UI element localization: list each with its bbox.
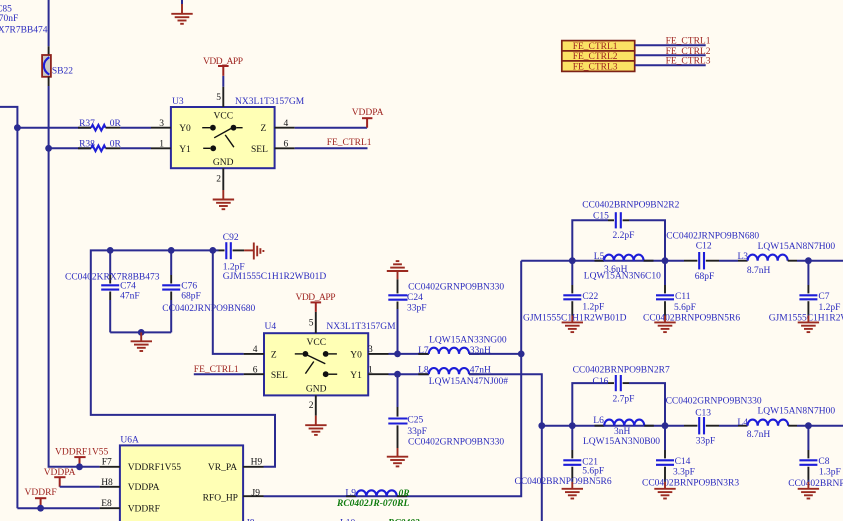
svg-text:LQW15AN47NJ00#: LQW15AN47NJ00#: [429, 377, 508, 387]
capacitor C15: [582, 201, 679, 241]
wire U4 SEL net FE_CTRL1: [194, 373, 244, 375]
svg-text:33pF: 33pF: [407, 427, 427, 437]
svg-text:F7: F7: [102, 457, 112, 467]
wire L8 to LC2 input: [469, 374, 542, 426]
svg-text:VDD_APP: VDD_APP: [296, 293, 336, 303]
ground below C74/C76: [131, 332, 152, 351]
power port VDD_APP (U3): [203, 57, 243, 76]
U4 switch symbol: [295, 351, 337, 377]
svg-text:3: 3: [368, 345, 373, 355]
svg-text:VDDRF: VDDRF: [25, 488, 57, 498]
ground above C24 (inverted): [387, 261, 408, 279]
svg-text:8.7nH: 8.7nH: [747, 266, 771, 276]
junction LC1 node1: [569, 257, 576, 264]
wire L7 to LC1 input: [469, 353, 521, 355]
inductor L8: [418, 365, 508, 387]
wire U4 Y1 to L8: [389, 373, 429, 375]
op... mux U3 body: [171, 97, 305, 168]
svg-text:5: 5: [216, 93, 221, 103]
svg-text:CC0402BRNPO9BN2R7: CC0402BRNPO9BN2R7: [573, 366, 670, 376]
svg-text:Y0: Y0: [179, 124, 191, 134]
svg-text:LQW15AN8N7H00: LQW15AN8N7H00: [758, 407, 836, 417]
svg-text:FE_CTRL1: FE_CTRL1: [194, 365, 239, 375]
capacitor C11: [643, 261, 740, 324]
junction Y1/C25: [394, 371, 401, 378]
U4 pin 1: [368, 365, 389, 375]
svg-text:C22: C22: [582, 292, 598, 302]
U6A pin J9: [243, 489, 263, 499]
capacitor C85 labels (component off-sheet left): [0, 5, 48, 36]
ground below U3: [213, 190, 234, 209]
svg-text:CC0402BRNPO9BN5R6: CC0402BRNPO9BN5R6: [515, 477, 612, 487]
svg-text:3nH: 3nH: [614, 427, 631, 437]
svg-text:C7: C7: [818, 292, 829, 302]
U6A pin H8: [100, 478, 120, 488]
ground below C7: [798, 316, 819, 333]
svg-text:68pF: 68pF: [695, 272, 715, 282]
svg-text:3: 3: [159, 119, 164, 129]
svg-text:2: 2: [309, 401, 314, 411]
svg-text:C8: C8: [818, 457, 829, 467]
capacitor C25: [388, 374, 504, 448]
ground below C8: [798, 482, 819, 499]
svg-text:2.7pF: 2.7pF: [613, 395, 635, 405]
U3 pin 5: [216, 87, 223, 107]
svg-text:VCC: VCC: [307, 338, 327, 348]
svg-text:SEL: SEL: [271, 371, 288, 381]
capacitor C7: [769, 261, 843, 324]
wire U3 pin5 stub: [222, 76, 224, 87]
svg-text:VDDRF: VDDRF: [128, 505, 160, 515]
svg-text:CC0402BRNPO9BN3R3: CC0402BRNPO9BN3R3: [788, 479, 843, 489]
svg-text:FE_CTRL2: FE_CTRL2: [573, 52, 618, 62]
ground below C22: [562, 316, 583, 333]
svg-text:SEL: SEL: [251, 145, 268, 155]
component U6A body: [120, 435, 243, 521]
wire U3 pin6 net FE_CTRL1: [295, 147, 368, 149]
wire U3 pin4 to VDDPA: [295, 127, 367, 129]
junction LC2 node2: [662, 422, 669, 429]
svg-text:FE_CTRL3: FE_CTRL3: [573, 62, 618, 72]
svg-text:C25: C25: [407, 416, 423, 426]
svg-text:3.3pF: 3.3pF: [673, 468, 695, 478]
svg-text:0R: 0R: [110, 119, 122, 129]
svg-text:L5: L5: [594, 252, 605, 262]
svg-text:2: 2: [216, 174, 221, 184]
svg-text:E8: E8: [101, 499, 112, 509]
capacitor C8: [788, 426, 843, 489]
capacitor C22: [523, 261, 627, 324]
wire R38 to U3 pin1: [120, 147, 151, 149]
capacitor C76: [162, 250, 255, 332]
inductor L7: [418, 335, 507, 356]
svg-text:GJM1555C1H1R2WB01D: GJM1555C1H1R2WB01D: [223, 272, 327, 282]
junction C74 tap: [107, 247, 114, 254]
svg-text:5: 5: [309, 318, 314, 328]
port block FE_CTRL1-3: [562, 41, 635, 73]
ground below C21: [562, 482, 583, 499]
U3 pin 1: [151, 140, 171, 150]
svg-text:4: 4: [284, 119, 289, 129]
svg-text:68pF: 68pF: [181, 292, 201, 302]
svg-text:1.2pF: 1.2pF: [819, 303, 841, 313]
ground chassis right of C92: [244, 243, 263, 260]
power port VDD_APP (U4): [296, 293, 336, 312]
wire LC2 stub down off-sheet: [541, 426, 543, 521]
power port VDDRF: [25, 488, 57, 508]
ground below C14: [654, 482, 675, 499]
wire SB22 down to F7 corner: [49, 86, 100, 467]
wire LC2 main line: [542, 425, 684, 427]
svg-text:RFO_HP: RFO_HP: [203, 494, 238, 504]
wire C74/C76 bottom tie: [110, 331, 171, 333]
inductor L4: [737, 407, 835, 440]
svg-text:NX3L1T3157GM: NX3L1T3157GM: [235, 97, 305, 107]
svg-text:J9: J9: [252, 489, 261, 499]
svg-text:L3: L3: [738, 252, 749, 262]
svg-text:47nF: 47nF: [120, 292, 140, 302]
inductor L5: [584, 252, 661, 281]
svg-text:CC0402KRX7R8BB473: CC0402KRX7R8BB473: [65, 273, 160, 283]
svg-text:L9: L9: [345, 488, 356, 498]
wire R38 input: [49, 147, 92, 149]
svg-text:5.6pF: 5.6pF: [674, 303, 696, 313]
capacitor C24: [388, 279, 504, 354]
junction C92 rail: [209, 247, 216, 254]
svg-text:CC0402JRNPO9BN680: CC0402JRNPO9BN680: [162, 304, 255, 314]
svg-text:CC0402JRNPO9BN680: CC0402JRNPO9BN680: [666, 232, 759, 242]
svg-text:1: 1: [159, 140, 164, 150]
wire port FE_CTRL3: [635, 64, 706, 66]
svg-text:L8: L8: [418, 365, 429, 375]
power port VDDPA (U6A): [44, 468, 76, 487]
svg-text:33pF: 33pF: [407, 304, 427, 314]
power port VDDRF1V55: [55, 447, 109, 467]
svg-text:C24: C24: [407, 293, 423, 303]
svg-text:L7: L7: [418, 346, 429, 356]
U4 pin 3: [368, 345, 389, 355]
svg-text:U4: U4: [265, 322, 277, 332]
svg-text:Y1: Y1: [350, 371, 362, 381]
capacitor C13 (series): [666, 397, 762, 447]
wire C16 bypass loop: [572, 383, 608, 426]
wire U4 Y0 to L7: [389, 353, 429, 355]
junction LC1 input: [518, 351, 525, 358]
junction R38 tap: [45, 145, 52, 152]
svg-text:CC0402KRX7R7BB474: CC0402KRX7R7BB474: [0, 25, 48, 35]
wire R37 to U3 pin3: [120, 127, 151, 129]
svg-text:Y1: Y1: [179, 145, 191, 155]
U4 pin 5: [309, 312, 316, 333]
capacitor C16: [573, 366, 670, 405]
svg-text:L6: L6: [593, 416, 604, 426]
svg-text:C85: C85: [0, 5, 12, 15]
wire C12 to L3: [719, 260, 738, 262]
svg-text:C92: C92: [223, 233, 239, 243]
inductor L9: [336, 488, 410, 509]
svg-text:U6A: U6A: [120, 435, 139, 445]
wire C15 to node2: [629, 220, 665, 260]
U3 pin 4: [275, 119, 295, 129]
svg-text:VR_PA: VR_PA: [208, 463, 237, 473]
svg-text:CC0402BRNPO9BN2R2: CC0402BRNPO9BN2R2: [582, 201, 679, 211]
junction LC2 node1: [569, 422, 576, 429]
svg-text:FE_CTRL2: FE_CTRL2: [666, 47, 711, 57]
svg-text:1.2pF: 1.2pF: [582, 303, 604, 313]
svg-text:C11: C11: [675, 292, 691, 302]
capacitor C21: [515, 426, 612, 487]
svg-text:C14: C14: [675, 457, 691, 467]
svg-text:H9: H9: [251, 458, 263, 468]
svg-text:2.2pF: 2.2pF: [613, 231, 635, 241]
svg-text:C15: C15: [593, 212, 609, 222]
svg-text:GND: GND: [213, 158, 234, 168]
wire vertical x521 (LC1 feed down to L9): [264, 261, 522, 497]
junction ground tie: [138, 329, 145, 336]
svg-text:CC0402GRNPO9BN330: CC0402GRNPO9BN330: [666, 397, 762, 407]
svg-text:FE_CTRL1: FE_CTRL1: [327, 138, 372, 148]
svg-text:C13: C13: [695, 409, 711, 419]
svg-text:SB22: SB22: [52, 67, 73, 77]
svg-text:VDDRF1V55: VDDRF1V55: [55, 447, 109, 457]
svg-text:CC0402GRNPO9BN330: CC0402GRNPO9BN330: [408, 283, 504, 293]
svg-text:LQW15AN8N7H00: LQW15AN8N7H00: [758, 242, 836, 252]
junction F7 tap: [76, 463, 83, 470]
svg-text:R37: R37: [79, 119, 95, 129]
svg-text:VDDPA: VDDPA: [352, 108, 384, 118]
svg-text:L4: L4: [737, 418, 748, 428]
wire L3 to node3 and right edge: [797, 260, 843, 262]
inductor L3: [738, 242, 836, 276]
wire left-edge feed to node A: [0, 107, 17, 128]
svg-text:CC0402GRNPO9BN330: CC0402GRNPO9BN330: [408, 438, 504, 448]
junction LC2 node3: [805, 422, 812, 429]
U3 pin 3: [151, 119, 171, 129]
U6A pin E8: [100, 499, 120, 509]
U4 pin 6: [244, 365, 264, 375]
svg-text:33pF: 33pF: [696, 436, 716, 446]
svg-text:4: 4: [253, 345, 258, 355]
wire port FE_CTRL1: [635, 44, 706, 46]
svg-text:R38: R38: [79, 140, 95, 150]
svg-text:FE_CTRL1: FE_CTRL1: [666, 37, 711, 47]
wire R37 input: [17, 127, 91, 129]
svg-text:0R: 0R: [110, 140, 122, 150]
node A junction: [14, 124, 21, 131]
wire vertical rail x48 (top edge through SB22 down to F7 row): [48, 0, 50, 46]
wire L4 to node3 and right edge: [797, 425, 843, 427]
solder bridge SB22: [42, 46, 73, 86]
svg-text:VCC: VCC: [214, 112, 234, 122]
ground below C11: [654, 316, 675, 333]
junction LC1 node3: [805, 257, 812, 264]
svg-text:C74: C74: [120, 282, 136, 292]
svg-text:LQW15AN3N6C10: LQW15AN3N6C10: [584, 271, 661, 281]
svg-text:VDDRF1V55: VDDRF1V55: [128, 463, 182, 473]
mux U4 body: [264, 322, 396, 396]
ground below U4: [305, 416, 326, 435]
ground below C25: [387, 448, 408, 466]
svg-text:LQW15AN33NG00: LQW15AN33NG00: [429, 335, 507, 345]
junction VDDRF tap: [37, 505, 44, 512]
wire LC1 main line: [521, 260, 684, 262]
svg-text:0R: 0R: [399, 489, 410, 499]
capacitor C92: [219, 233, 327, 282]
svg-text:470nF: 470nF: [0, 14, 18, 24]
svg-text:NX3L1T3157GM: NX3L1T3157GM: [326, 322, 396, 332]
svg-text:1.3pF: 1.3pF: [819, 468, 841, 478]
svg-text:8.7nH: 8.7nH: [747, 430, 771, 440]
svg-text:VDDPA: VDDPA: [128, 483, 160, 493]
svg-text:Z: Z: [261, 124, 267, 134]
U6A pin H9: [243, 458, 263, 468]
U6A pin F7: [100, 457, 120, 467]
inductor L6: [583, 416, 660, 447]
svg-text:GND: GND: [306, 384, 327, 394]
svg-text:6: 6: [253, 365, 258, 375]
svg-text:C12: C12: [696, 242, 712, 252]
svg-text:C76: C76: [181, 282, 197, 292]
svg-text:CC0402BRNPO9BN3R3: CC0402BRNPO9BN3R3: [642, 479, 739, 489]
svg-text:Y0: Y0: [350, 350, 362, 360]
wire vertical rail x17 (node A to VDDRF row): [16, 128, 18, 509]
junction Y0/C24: [394, 351, 401, 358]
power port VDDPA (U3 Z): [352, 108, 384, 128]
wire VR_PA to decoupling rail: [91, 250, 275, 466]
svg-text:5.6pF: 5.6pF: [582, 467, 604, 477]
resistor R38: [78, 140, 122, 152]
svg-text:FE_CTRL3: FE_CTRL3: [666, 57, 711, 67]
wire C16 to node2: [629, 383, 665, 426]
wire C92 junction down to U4 Z: [213, 250, 244, 354]
junction LC2 entry: [538, 422, 545, 429]
U3 pin 6: [275, 140, 295, 150]
svg-text:FE_CTRL1: FE_CTRL1: [573, 42, 618, 52]
U3 switch symbol: [202, 125, 242, 151]
wire C13 to L4: [719, 425, 738, 427]
wire port FE_CTRL2: [635, 54, 706, 56]
ground top (off-sheet stub): [171, 0, 192, 24]
wire rail to E8: [17, 507, 99, 509]
svg-text:1.2pF: 1.2pF: [223, 262, 245, 272]
clipped bottom text hints: [246, 519, 420, 521]
U4 pin 4: [244, 345, 264, 355]
svg-text:LQW15AN3N0B00: LQW15AN3N0B00: [583, 437, 660, 447]
svg-text:U3: U3: [172, 97, 184, 107]
capacitor C14: [642, 426, 739, 489]
junction C76 tap: [168, 247, 175, 254]
U4 pin 2: [309, 395, 316, 415]
U3 pin 2: [216, 168, 223, 190]
wire C15 bypass loop: [572, 220, 608, 260]
junction LC1 node2: [662, 257, 669, 264]
wire VDDPA to H8: [60, 486, 100, 488]
capacitor C74: [65, 250, 160, 332]
svg-text:C16: C16: [593, 377, 609, 387]
svg-text:RC0402JR-070RL: RC0402JR-070RL: [336, 499, 410, 509]
svg-text:6: 6: [284, 140, 289, 150]
svg-text:Z: Z: [271, 350, 277, 360]
svg-text:1: 1: [368, 365, 373, 375]
svg-text:H8: H8: [101, 478, 113, 488]
capacitor C12 (series): [666, 232, 759, 282]
resistor R37: [78, 119, 122, 131]
